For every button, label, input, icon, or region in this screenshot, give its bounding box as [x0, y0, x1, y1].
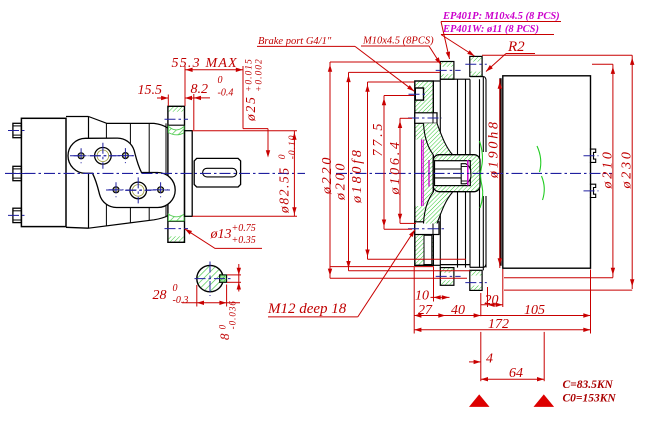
flange holes	[78, 153, 84, 159]
svg-text:+0.35: +0.35	[232, 235, 256, 246]
bottom white column	[424, 235, 432, 264]
svg-text:M10x4.5 (8PCS): M10x4.5 (8PCS)	[362, 36, 434, 47]
svg-text:10: 10	[415, 289, 429, 304]
svg-text:+0.002: +0.002	[255, 58, 265, 92]
flange face plate	[185, 131, 193, 217]
drum	[503, 76, 591, 268]
dim dia82.55	[277, 134, 299, 214]
svg-text:ø200: ø200	[334, 161, 349, 201]
hub bore	[435, 161, 471, 186]
dim 172	[414, 329, 590, 331]
load triangles	[469, 394, 490, 407]
svg-text:0: 0	[173, 283, 178, 294]
dim dia230	[620, 149, 635, 189]
shaft section detail	[197, 265, 223, 291]
taper to flange	[89, 117, 168, 129]
housing top edges	[440, 78, 470, 80]
flange stud centerlines	[165, 118, 189, 120]
fillet hatch top	[168, 126, 184, 135]
M10 boss top	[415, 113, 437, 124]
flange disc hatch	[169, 107, 184, 112]
svg-text:+0.015: +0.015	[245, 58, 255, 92]
dim 77.5	[371, 121, 386, 157]
mounting bolts left side	[13, 123, 22, 137]
stud bottom 1	[440, 268, 454, 286]
dim dia25 callout	[243, 58, 265, 122]
detail crosshair	[209, 262, 211, 297]
dim dia180f8	[350, 147, 365, 204]
hole row centerlines	[70, 155, 134, 157]
motor mid housing	[66, 116, 89, 118]
motor body left view	[21, 118, 66, 226]
svg-text:0: 0	[218, 75, 223, 86]
funnel transition bottom	[424, 192, 453, 223]
stud top 1	[440, 62, 454, 80]
green wavy boundary	[480, 141, 483, 208]
output flange disc edge	[168, 106, 185, 242]
svg-text:27: 27	[418, 303, 433, 318]
svg-text:55.3 MAX: 55.3 MAX	[172, 56, 238, 71]
flange bore white	[415, 140, 421, 207]
magenta bore lines	[421, 140, 423, 207]
svg-text:172: 172	[488, 317, 509, 332]
wheel flange plate section	[415, 81, 434, 265]
stud top 2	[470, 56, 482, 76]
svg-text:ø13: ø13	[210, 227, 232, 242]
main centerline left view	[5, 172, 305, 174]
dim dia220	[320, 155, 335, 195]
svg-text:ø82.55: ø82.55	[277, 166, 292, 214]
wheel stud hole	[415, 88, 423, 100]
fillet hatch bottom	[168, 214, 184, 221]
svg-text:15.5: 15.5	[138, 83, 163, 98]
svg-text:Brake port G4/1": Brake port G4/1"	[258, 36, 332, 47]
svg-text:C0=153KN: C0=153KN	[563, 393, 617, 405]
svg-text:4: 4	[486, 352, 493, 367]
dim 8 detail	[217, 300, 238, 340]
drum break marks	[537, 146, 541, 172]
dim dia210	[601, 149, 616, 189]
svg-text:C=83.5KN: C=83.5KN	[563, 379, 614, 391]
svg-text:ø180f8: ø180f8	[350, 147, 365, 204]
M10 boss bottom with bolt	[415, 222, 439, 235]
svg-text:ø106.4: ø106.4	[388, 139, 403, 195]
svg-text:40: 40	[451, 303, 465, 318]
keyway detail	[220, 275, 227, 282]
svg-text:8.2: 8.2	[191, 82, 209, 97]
svg-text:+0.75: +0.75	[232, 223, 256, 234]
svg-text:-0.4: -0.4	[218, 88, 234, 99]
svg-text:8: 8	[217, 333, 232, 341]
svg-text:ø190h8: ø190h8	[487, 119, 502, 179]
ext lines bottom left of section	[330, 266, 434, 268]
svg-text:28: 28	[153, 288, 167, 303]
section centerline	[336, 172, 612, 174]
svg-text:0: 0	[218, 324, 228, 330]
svg-text:ø25: ø25	[243, 95, 258, 122]
stud bottom 2	[470, 270, 482, 290]
drum notch top	[590, 149, 596, 162]
svg-text:EP401P: M10x4.5 (8 PCS): EP401P: M10x4.5 (8 PCS)	[442, 11, 560, 22]
dim 4 and 64	[480, 332, 482, 381]
section joints behind plate	[105, 123, 107, 225]
flange plate front	[68, 138, 175, 207]
svg-text:-0.036: -0.036	[228, 300, 238, 329]
shaft bolt	[435, 168, 462, 170]
svg-text:-0.3: -0.3	[173, 295, 189, 306]
svg-text:64: 64	[509, 366, 523, 381]
svg-text:M12 deep 18: M12 deep 18	[267, 301, 347, 317]
dim 27 40 105 row	[414, 315, 590, 317]
dim dia106.4	[388, 139, 403, 195]
drum notch bottom	[590, 184, 596, 197]
dim dia190h8	[487, 119, 502, 179]
svg-text:R2: R2	[507, 39, 525, 55]
keyway slot	[203, 168, 237, 177]
svg-text:EP401W: ø11 (8 PCS): EP401W: ø11 (8 PCS)	[442, 24, 539, 35]
housing bottom edges	[440, 264, 470, 266]
svg-text:0: 0	[278, 153, 288, 159]
section housing verticals	[439, 79, 441, 267]
dim dia200	[334, 161, 349, 201]
output shaft	[194, 158, 240, 187]
big holes	[95, 148, 112, 165]
hub	[433, 155, 480, 192]
svg-text:105: 105	[524, 303, 545, 318]
funnel transition top	[424, 123, 453, 154]
